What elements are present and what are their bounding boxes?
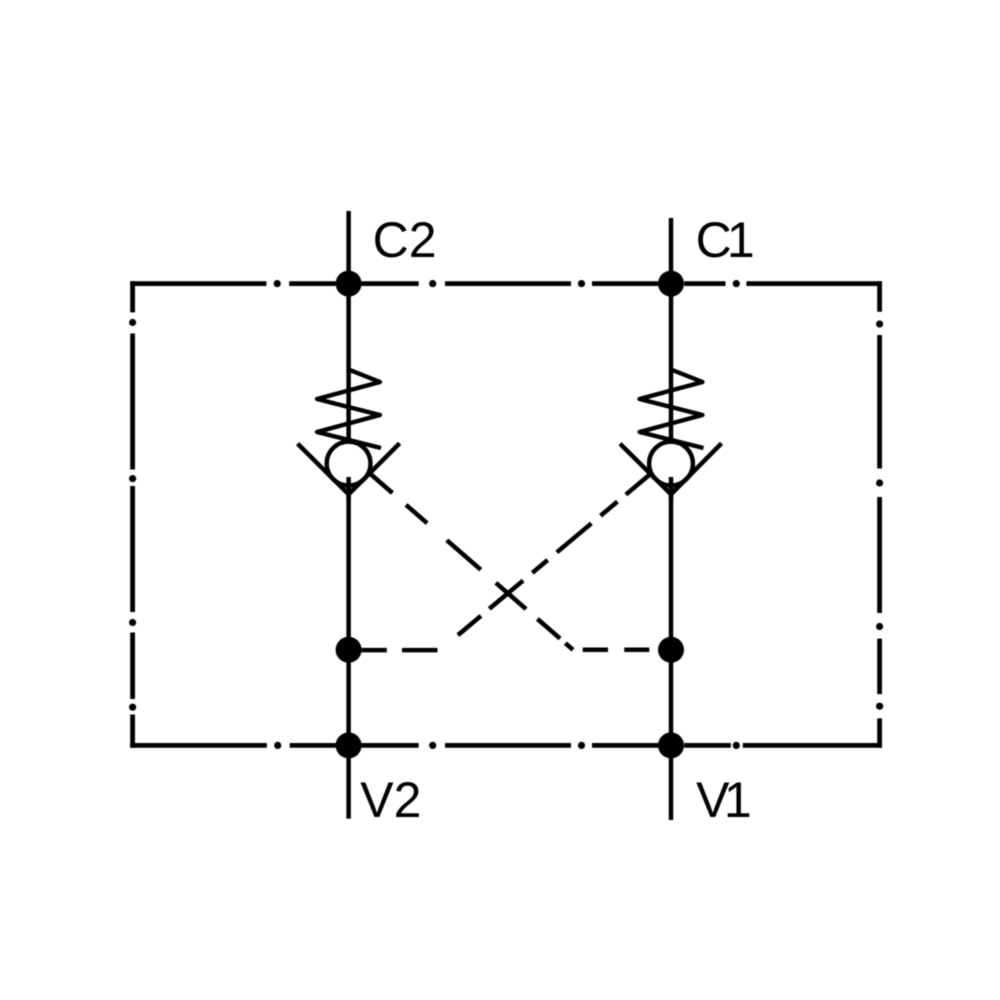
svg-text:1: 1: [724, 772, 752, 828]
svg-text:C2: C2: [373, 212, 437, 268]
enclosure top edge dots: [274, 280, 740, 287]
enclosure bottom edge (dash-dot boundary): [130, 743, 882, 748]
svg-text:V2: V2: [360, 772, 421, 828]
svg-text:1: 1: [727, 212, 755, 268]
wire: C2-V2 branch lower: [346, 477, 351, 819]
enclosure left edge dots: [129, 319, 136, 711]
enclosure right edge (dash-dot boundary): [877, 281, 882, 748]
wire: C1-V1 branch lower: [669, 477, 674, 820]
junction node C1: [658, 271, 684, 297]
spring of CV2: [317, 370, 381, 449]
enclosure top edge (dash-dot boundary): [130, 281, 882, 286]
check valve CV1 seat: [620, 443, 722, 494]
enclosure left edge (dash-dot boundary): [130, 281, 135, 748]
wire: CV1 ball outlet stub: [669, 477, 674, 500]
pilot line A horizontal dashes: [583, 648, 650, 653]
spring of CV1: [640, 370, 704, 449]
junction node C2: [336, 271, 362, 297]
wire: C1 branch upper (port C1 line): [669, 218, 674, 444]
check valve CV2 seat: [298, 443, 400, 494]
junction node pilot-V2: [336, 637, 362, 663]
junction node pilot-V1: [658, 637, 684, 663]
enclosure bottom edge dots: [274, 742, 740, 749]
wire: C2 branch upper (port C2 line): [346, 211, 351, 444]
enclosure right edge dots: [876, 320, 883, 709]
pilot line B diagonal (from CV1 seat to V2 side, dashed): [440, 474, 650, 650]
junction node V2: [336, 732, 362, 758]
check valve CV2 ball: [327, 442, 371, 486]
junction node V1: [658, 732, 684, 758]
wire: CV2 ball outlet stub: [346, 477, 351, 500]
pilot line B horizontal dashes: [362, 648, 438, 653]
check valve CV1 ball: [649, 442, 693, 486]
pilot line A diagonal (from CV2 seat to V1 side, dashed): [371, 474, 574, 650]
